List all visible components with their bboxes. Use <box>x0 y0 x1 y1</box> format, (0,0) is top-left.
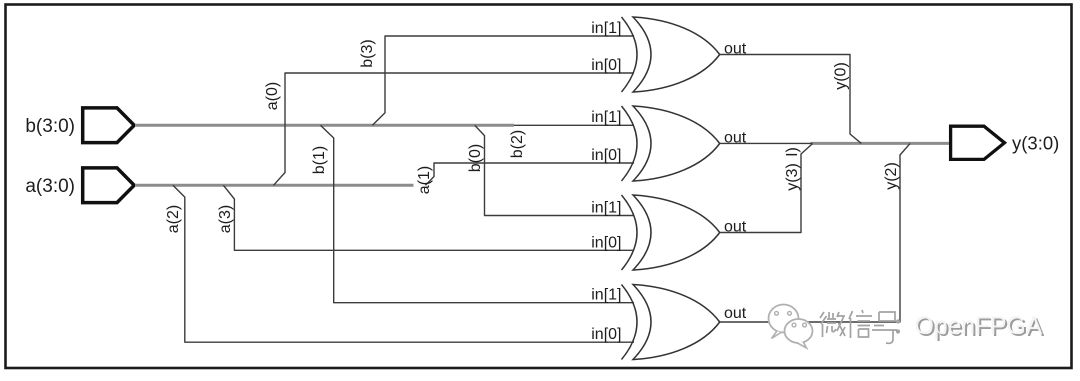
output port y(3:0) <box>951 126 1060 159</box>
svg-text:in[0]: in[0] <box>591 326 621 343</box>
wire a(3) tap to gate3 in[0] <box>223 185 634 250</box>
xor gate U2 (y1) <box>591 106 747 181</box>
svg-text:y(2): y(2) <box>883 162 900 190</box>
watermark wechat icon <box>769 305 813 349</box>
net label b(2) <box>509 130 526 158</box>
watermark char xin <box>849 310 872 338</box>
svg-text:I): I) <box>784 147 801 157</box>
wire b(1) tap to gate4 in[1] <box>321 125 635 302</box>
net label y(3) <box>784 147 801 191</box>
net label b(0) <box>467 144 484 172</box>
svg-text:in[1]: in[1] <box>591 200 621 217</box>
xor gate U3 (y3) <box>591 195 747 270</box>
svg-text:y(0): y(0) <box>833 62 850 90</box>
svg-text:b(3:0): b(3:0) <box>25 116 75 137</box>
svg-text:b(2): b(2) <box>509 130 526 158</box>
watermark text OpenFPGA <box>915 312 1045 342</box>
svg-text:out: out <box>724 219 747 236</box>
svg-text:in[1]: in[1] <box>591 20 621 37</box>
net label y(0) <box>833 62 850 90</box>
svg-text:in[0]: in[0] <box>591 57 621 74</box>
net label b(1) <box>311 146 328 174</box>
svg-text:in[0]: in[0] <box>591 234 621 251</box>
svg-text:b(1): b(1) <box>311 146 328 174</box>
net label a(2) <box>165 205 182 233</box>
wire a(2) tap to gate4 in[0] <box>173 185 634 342</box>
svg-text:out: out <box>724 130 747 147</box>
net label a(0) <box>264 82 281 110</box>
svg-text:in[1]: in[1] <box>591 287 621 304</box>
xor gate U4 (y2) <box>591 285 747 360</box>
wire y(0) from gate1 out to bus <box>720 55 862 144</box>
svg-text:a(0): a(0) <box>264 82 281 110</box>
net label a(3) <box>217 205 234 233</box>
svg-text:y(3): y(3) <box>784 163 801 191</box>
wire a(1) jog to gate2 in[0] <box>426 163 635 185</box>
wire a(0) tap to gate1 in[0] <box>274 73 635 185</box>
bus a(3:0) <box>135 184 414 187</box>
svg-text:out: out <box>724 305 747 322</box>
svg-text:in[1]: in[1] <box>591 109 621 126</box>
svg-text:y(3:0): y(3:0) <box>1012 133 1059 154</box>
svg-text:b(0): b(0) <box>467 144 484 172</box>
net label b(3) <box>359 39 376 67</box>
watermark char wei <box>820 312 845 337</box>
net label y(2) <box>883 162 900 190</box>
wire b(2) continuation to gate2 in[1] <box>514 124 634 126</box>
svg-text:OpenFPGA: OpenFPGA <box>915 312 1043 340</box>
wire y(1) from gate2 out to bus <box>720 142 813 144</box>
svg-text:a(3:0): a(3:0) <box>25 176 75 197</box>
svg-text:a(3): a(3) <box>217 205 234 233</box>
xor gate U1 (y0) <box>591 17 747 92</box>
net label a(1) <box>416 166 433 194</box>
svg-text:b(3): b(3) <box>359 39 376 67</box>
watermark char hao <box>872 312 897 343</box>
svg-text:in[0]: in[0] <box>591 147 621 164</box>
bus y(3:0) <box>811 142 950 145</box>
wire b(3) tap to gate1 in[1] <box>372 36 634 125</box>
wire y(3) from gate3 out to bus <box>720 144 813 233</box>
wire y(2) from gate4 out to bus <box>720 144 910 322</box>
bus b(3:0) <box>135 124 514 127</box>
svg-text:out: out <box>724 41 747 58</box>
svg-text:a(1): a(1) <box>416 166 433 194</box>
svg-text:a(2): a(2) <box>165 205 182 233</box>
input port a(3:0) <box>25 168 134 203</box>
wire b(0) tap to gate3 in[1] <box>475 125 634 215</box>
watermark separator colon <box>896 319 900 333</box>
input port b(3:0) <box>25 108 134 143</box>
